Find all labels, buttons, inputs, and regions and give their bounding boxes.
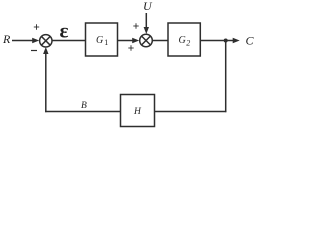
summing junction S2 <box>140 34 153 47</box>
svg-text:C: C <box>246 34 255 48</box>
svg-text:G: G <box>96 35 103 46</box>
wire left feedback up to S1 <box>45 51 47 112</box>
block G2 <box>168 23 200 56</box>
svg-text:H: H <box>133 107 142 117</box>
wire G1 to summer S2 <box>118 40 135 42</box>
wire U to S2 <box>145 13 147 29</box>
minus sign at S1 <box>31 50 37 52</box>
svg-text:ε: ε <box>60 19 69 43</box>
summing junction S1 <box>40 35 52 47</box>
wire H to left corner <box>45 111 120 113</box>
takeoff node junction dot <box>224 39 228 43</box>
svg-text:1: 1 <box>104 38 108 47</box>
plus sign upper at S2 <box>133 23 138 28</box>
arrowhead to C <box>233 38 240 43</box>
svg-text:2: 2 <box>186 38 190 47</box>
arrowhead into S2 <box>132 38 139 43</box>
svg-text:R: R <box>2 32 11 46</box>
svg-text:G: G <box>179 35 186 46</box>
wire G2 to C <box>200 40 234 42</box>
wire right feedback horizontal <box>155 111 227 113</box>
svg-text:U: U <box>143 0 153 13</box>
plus sign at S1 <box>34 24 39 29</box>
wire R to summer S1 <box>12 40 34 42</box>
block G1 <box>86 23 118 56</box>
plus sign lower at S2 <box>128 45 133 50</box>
svg-text:B: B <box>81 101 87 111</box>
wire takeoff down <box>225 41 227 113</box>
arrowhead into S2 from top <box>144 27 149 34</box>
arrowhead into S1 <box>32 38 39 43</box>
block H <box>121 95 155 127</box>
wire S1 to G1 <box>52 40 86 42</box>
arrowhead into S1 from below <box>43 47 48 54</box>
wire S2 to G2 <box>152 40 168 42</box>
